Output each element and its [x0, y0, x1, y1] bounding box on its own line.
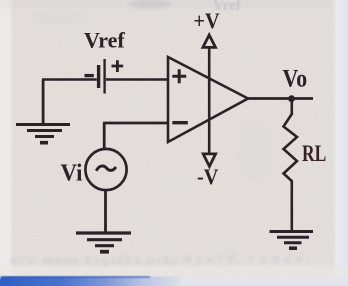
wire: positive supply line through op-amp — [208, 47, 211, 155]
resistor RL — [284, 114, 298, 181]
op-amp non-inverting input marking + — [172, 69, 186, 83]
wire: Vi source down to ground — [104, 190, 107, 234]
svg-text:+V: +V — [194, 8, 221, 33]
battery Vref: positive plate (long bar) — [103, 59, 105, 94]
wire: vertical from inverting input wire down to Vi source — [103, 123, 106, 150]
ground (below RL) — [270, 232, 314, 249]
wire: left vertical down to ground — [42, 80, 45, 124]
AC source Vi — [85, 149, 126, 190]
node Vo junction dot — [288, 95, 295, 102]
wire: Vi source to op-amp inverting input — [103, 122, 167, 125]
svg-text:Vo: Vo — [283, 65, 308, 93]
ground (below Vi) — [76, 233, 131, 252]
wire: left ground to battery negative — [42, 78, 97, 81]
svg-text:Vi: Vi — [61, 160, 83, 187]
ground (left) — [16, 125, 70, 143]
-V supply arrowhead — [203, 154, 215, 167]
battery polarity minus sign — [85, 74, 94, 77]
wire: battery positive to op-amp non-inverting input — [106, 78, 167, 81]
wire: Vo node down to resistor — [290, 99, 293, 116]
svg-text:-V: -V — [197, 164, 219, 189]
battery polarity plus sign — [112, 60, 124, 72]
battery Vref: negative plate (short bar) — [97, 65, 100, 88]
svg-text:uvw mpon kvgsdba nvhc: uvw mpon kvgsdba nvhc — [10, 252, 178, 267]
op-amp inverting input marking - — [172, 121, 188, 124]
svg-text:Vref: Vref — [84, 28, 125, 53]
svg-text:RL: RL — [302, 142, 326, 167]
+V supply arrowhead — [203, 35, 216, 47]
wire: resistor down to ground — [290, 180, 293, 232]
wire: op-amp output to the right — [248, 97, 313, 100]
op-amp U1 — [168, 57, 248, 142]
